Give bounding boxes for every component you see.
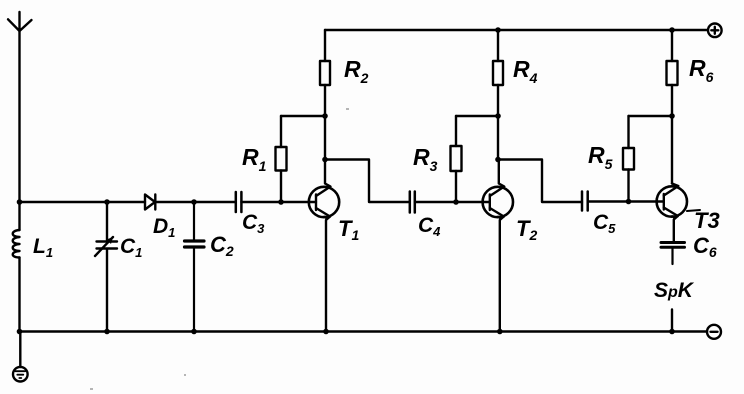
resistor R2 <box>320 30 330 116</box>
node collector takeoff T2 <box>495 157 501 163</box>
wire collector line R6 to T3 <box>671 116 673 184</box>
battery + terminal <box>708 24 722 38</box>
inductor L1 <box>13 202 20 332</box>
node R1 bottom junction <box>278 199 284 205</box>
label T3 <box>687 210 700 211</box>
node T1 emitter at rail <box>323 329 329 335</box>
battery - terminal <box>707 325 721 339</box>
wire collector line R2 to takeoff <box>324 116 326 160</box>
node R5-wire junction <box>669 113 675 119</box>
node R5 bottom junction <box>626 199 632 205</box>
transistor T3 <box>657 184 687 243</box>
wire speaker to bottom rail <box>671 310 673 332</box>
capacitor C1 (variable) <box>95 202 117 332</box>
resistor R3 <box>451 116 462 202</box>
capacitor C2 <box>185 202 205 332</box>
wire takeoff to C4 <box>325 160 410 203</box>
node T2 emitter at rail <box>497 329 503 335</box>
wire top supply rail <box>325 29 708 31</box>
svg-text:T3: T3 <box>694 208 720 233</box>
node C1 top <box>104 199 110 205</box>
antenna <box>8 12 32 31</box>
capacitor C6 <box>661 243 685 265</box>
node R3 bottom junction <box>453 199 459 205</box>
wire R5 top to collector line <box>629 115 673 117</box>
capacitor C4 <box>410 192 415 213</box>
resistor R6 <box>667 30 678 116</box>
wire R3 top to collector line <box>456 115 498 117</box>
wire bottom supply rail <box>20 330 708 332</box>
capacitor C5 <box>582 192 588 211</box>
node L1 at bottom rail <box>17 329 23 335</box>
ground symbol <box>13 367 28 382</box>
node C2 bottom <box>191 329 197 335</box>
node speaker at rail <box>669 329 675 335</box>
capacitor C3 <box>236 192 242 212</box>
wire R1 top to collector line <box>281 115 325 117</box>
wire left horizontal to diode <box>20 201 146 203</box>
scan specks (decorative) <box>90 108 349 390</box>
node collector takeoff T1 <box>322 157 328 163</box>
diode D1 <box>145 195 155 210</box>
wire to ground <box>19 332 21 368</box>
wire antenna down-lead <box>18 31 20 202</box>
transistor T2 <box>483 160 513 332</box>
node C2 top <box>191 199 197 205</box>
node antenna/L1 junction <box>17 199 23 205</box>
wire C5 to T3 base <box>588 200 664 202</box>
wire C3 to T1 base <box>241 201 316 203</box>
resistor R5 <box>623 116 634 202</box>
wire C4 to T2 base <box>415 201 490 203</box>
wire collector line R4 to takeoff <box>497 116 499 160</box>
node R3-wire junction <box>495 113 501 119</box>
resistor R1 <box>276 116 287 202</box>
wire takeoff to C5 <box>498 160 582 203</box>
transistor T1 <box>309 160 339 332</box>
node R6 at top rail <box>669 27 675 33</box>
node R1-wire/collector-line junction <box>322 113 328 119</box>
node R4 at top rail <box>495 27 501 33</box>
resistor R4 <box>493 30 503 116</box>
node C1 bottom <box>104 329 110 335</box>
wire diode to C3 <box>155 201 236 203</box>
